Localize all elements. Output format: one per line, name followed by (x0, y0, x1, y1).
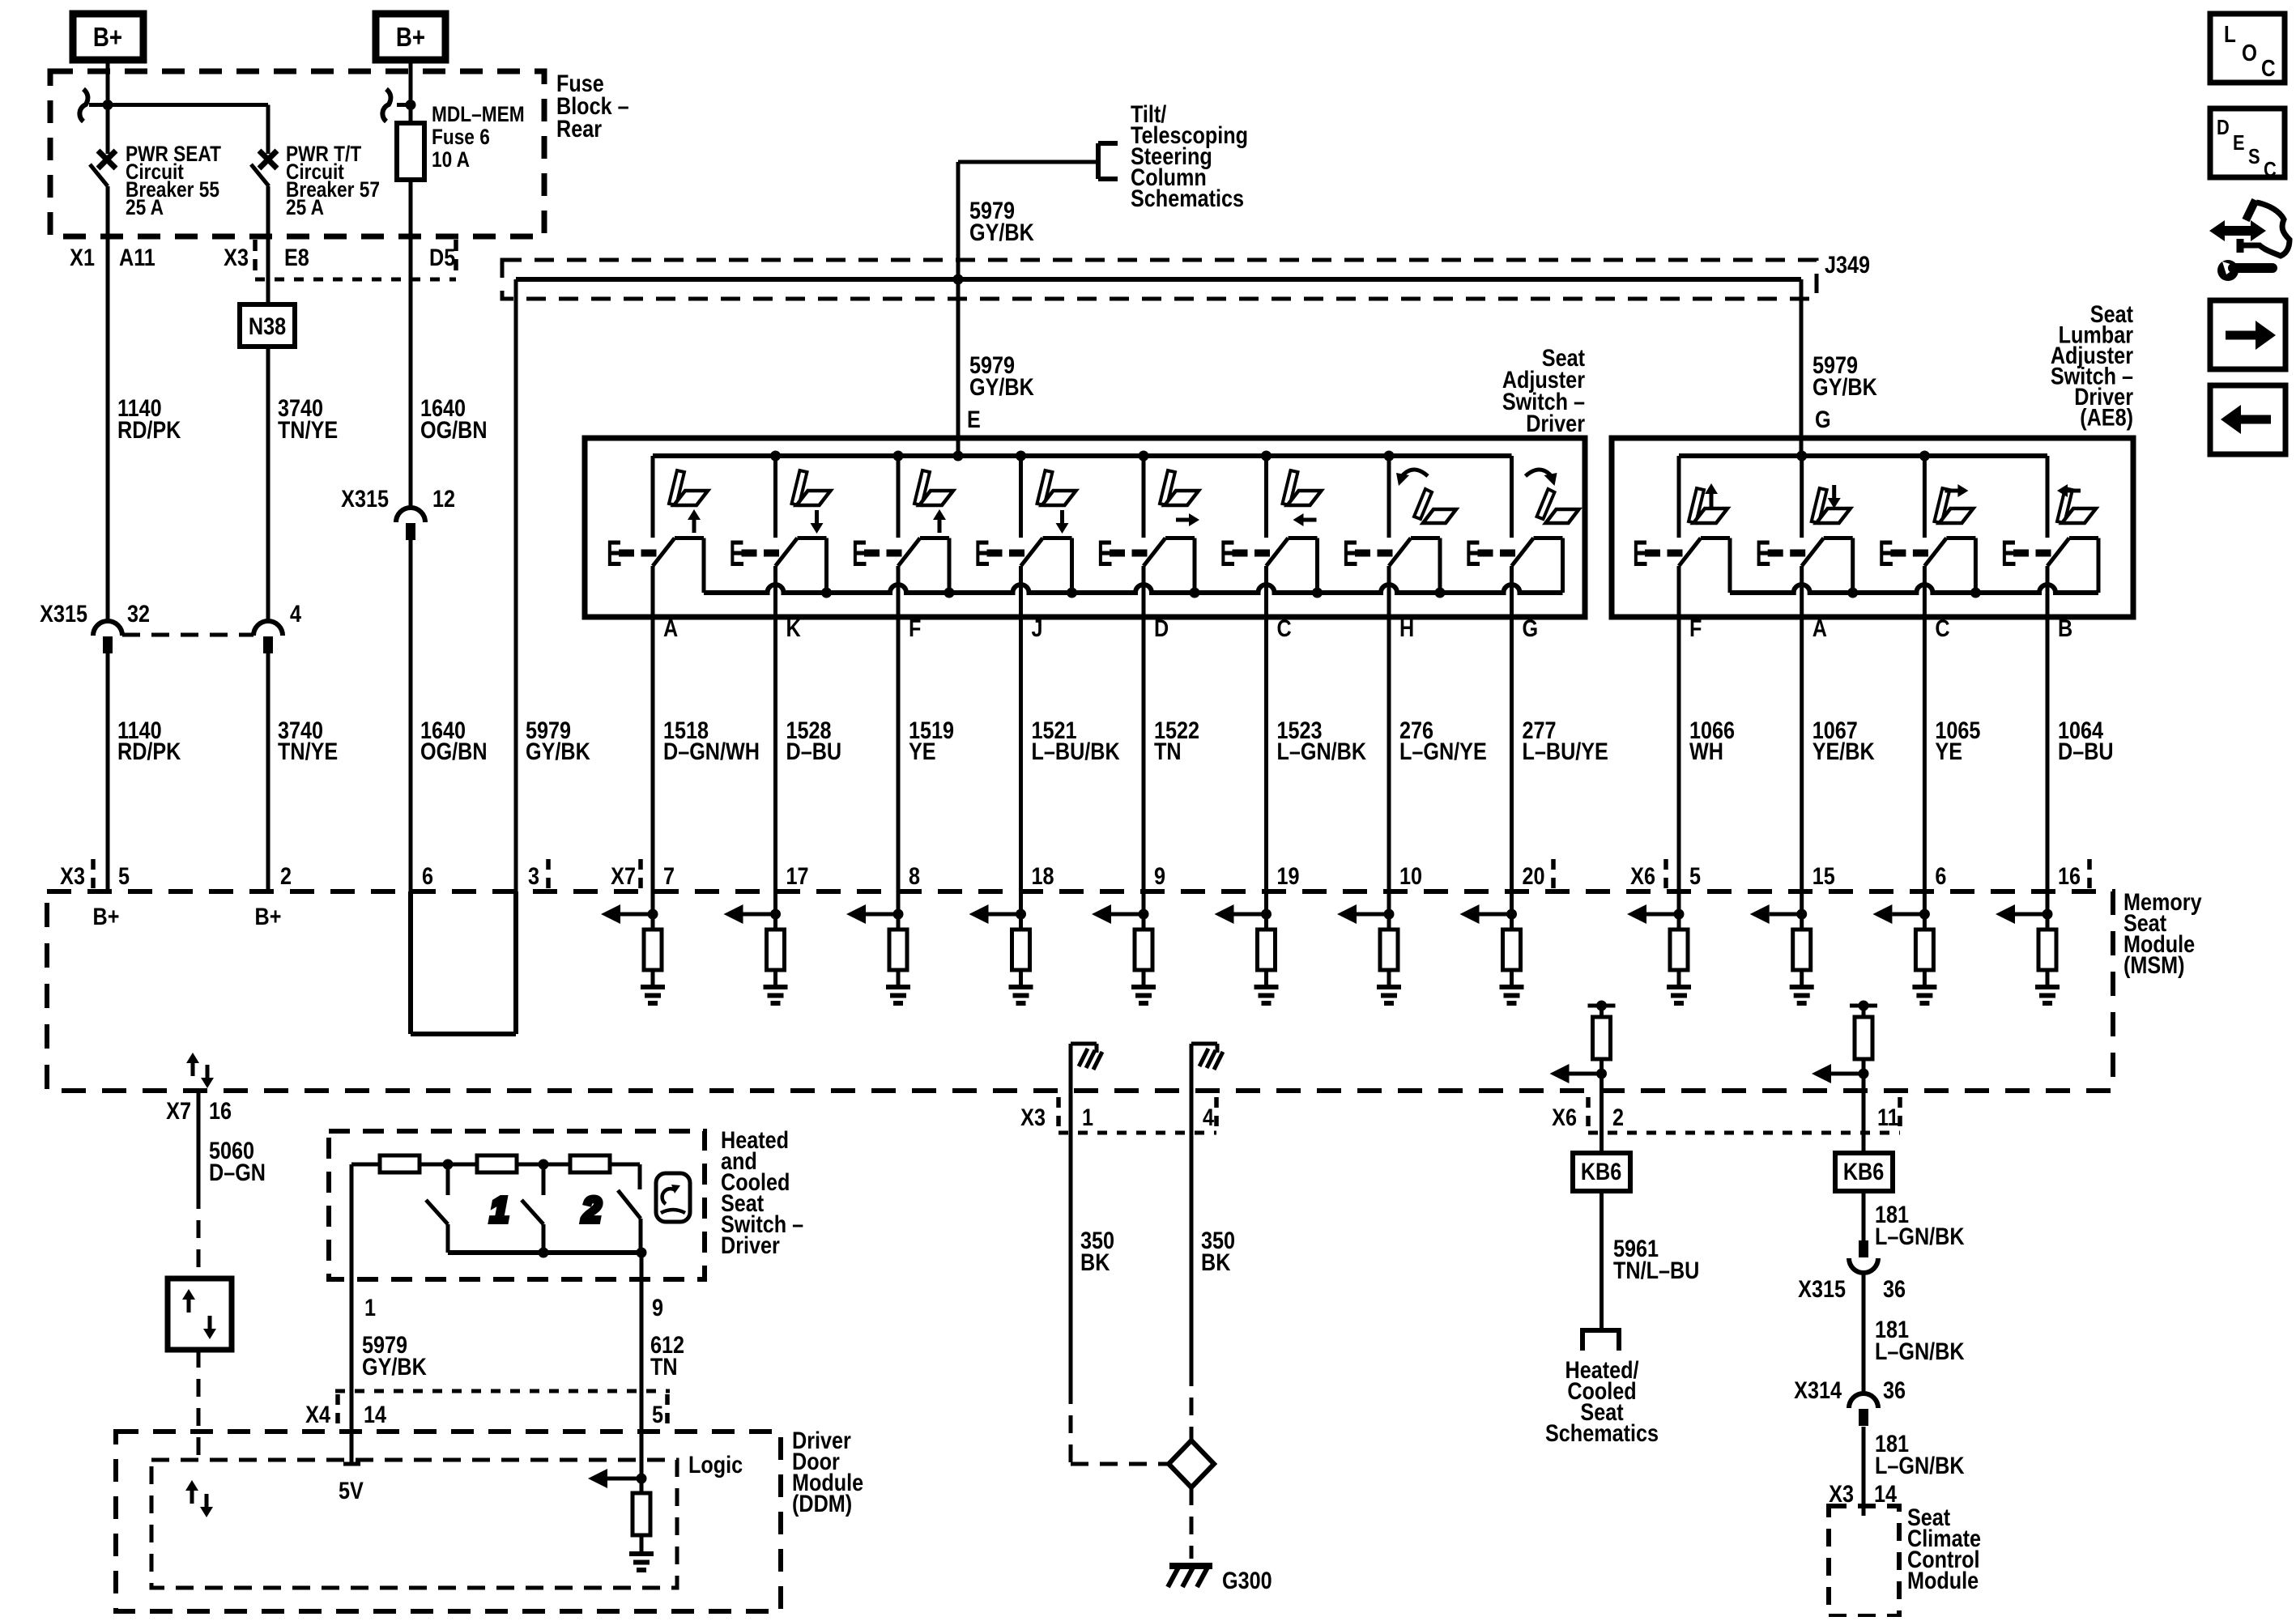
svg-text:J349: J349 (1825, 251, 1870, 279)
svg-text:BK: BK (1080, 1249, 1110, 1276)
svg-text:YE: YE (1935, 738, 1962, 765)
svg-text:D–GN: D–GN (209, 1159, 266, 1186)
svg-text:4: 4 (290, 600, 302, 628)
svg-text:10: 10 (1399, 862, 1422, 890)
svg-text:G: G (1815, 406, 1831, 433)
svg-text:2: 2 (581, 1190, 601, 1230)
svg-text:3: 3 (528, 862, 539, 890)
svg-text:10 A: 10 A (432, 147, 470, 172)
svg-text:X315: X315 (1798, 1275, 1846, 1303)
svg-text:KB6: KB6 (1581, 1158, 1621, 1185)
svg-text:X3: X3 (1020, 1104, 1046, 1131)
svg-text:RD/PK: RD/PK (117, 738, 181, 765)
svg-text:K: K (786, 615, 801, 642)
svg-text:WH: WH (1689, 738, 1723, 765)
svg-text:11: 11 (1877, 1104, 1899, 1131)
svg-text:X7: X7 (611, 862, 636, 890)
svg-text:L: L (2224, 21, 2236, 47)
svg-text:9: 9 (652, 1294, 663, 1321)
svg-text:Rear: Rear (556, 115, 602, 143)
svg-text:B+: B+ (93, 903, 120, 930)
svg-text:Logic: Logic (688, 1451, 743, 1478)
svg-text:F: F (1689, 615, 1702, 642)
svg-text:RD/PK: RD/PK (117, 416, 181, 444)
svg-text:X6: X6 (1630, 862, 1655, 890)
svg-text:X315: X315 (40, 600, 87, 628)
svg-text:2: 2 (1612, 1104, 1624, 1131)
svg-text:25 A: 25 A (286, 195, 324, 219)
svg-text:L–BU/YE: L–BU/YE (1523, 738, 1608, 765)
svg-text:X3: X3 (60, 862, 85, 890)
svg-text:J: J (1032, 615, 1043, 642)
svg-text:L–GN/BK: L–GN/BK (1875, 1223, 1965, 1250)
svg-text:8: 8 (909, 862, 920, 890)
svg-text:36: 36 (1883, 1376, 1906, 1404)
svg-text:B+: B+ (93, 23, 122, 53)
svg-text:TN/YE: TN/YE (278, 416, 338, 444)
svg-text:D5: D5 (429, 244, 455, 271)
svg-text:L–GN/BK: L–GN/BK (1277, 738, 1367, 765)
svg-text:D–BU: D–BU (786, 738, 842, 765)
svg-text:1: 1 (364, 1294, 376, 1321)
svg-text:B+: B+ (396, 23, 425, 53)
svg-text:X1: X1 (70, 244, 95, 271)
svg-text:D–GN/WH: D–GN/WH (663, 738, 760, 765)
svg-text:Driver: Driver (721, 1232, 780, 1259)
svg-text:OG/BN: OG/BN (420, 738, 488, 765)
svg-text:Module: Module (1907, 1567, 1979, 1594)
svg-text:A11: A11 (119, 244, 155, 271)
svg-text:MDL–MEM: MDL–MEM (432, 102, 525, 126)
svg-text:KB6: KB6 (1843, 1158, 1884, 1185)
svg-text:17: 17 (786, 862, 809, 890)
svg-text:A: A (1813, 615, 1827, 642)
svg-text:2: 2 (280, 862, 292, 890)
svg-text:19: 19 (1277, 862, 1300, 890)
svg-text:B+: B+ (255, 903, 282, 930)
svg-text:X7: X7 (166, 1097, 191, 1125)
svg-text:TN/YE: TN/YE (278, 738, 338, 765)
svg-text:YE: YE (909, 738, 936, 765)
svg-text:5: 5 (1689, 862, 1701, 890)
svg-text:GY/BK: GY/BK (1813, 373, 1877, 401)
svg-text:F: F (909, 615, 921, 642)
svg-text:X3: X3 (1829, 1480, 1854, 1508)
svg-text:15: 15 (1813, 862, 1835, 890)
svg-text:BK: BK (1201, 1249, 1230, 1276)
svg-text:4: 4 (1203, 1104, 1215, 1131)
svg-text:32: 32 (127, 600, 150, 628)
svg-text:L–GN/BK: L–GN/BK (1875, 1338, 1965, 1365)
svg-text:OG/BN: OG/BN (420, 416, 488, 444)
svg-text:E: E (967, 406, 981, 433)
svg-text:Fuse 6: Fuse 6 (432, 125, 490, 149)
svg-text:1: 1 (490, 1190, 509, 1230)
svg-text:L–BU/BK: L–BU/BK (1032, 738, 1120, 765)
svg-text:12: 12 (432, 485, 455, 513)
svg-text:Driver: Driver (1526, 410, 1585, 437)
svg-text:G: G (1523, 615, 1539, 642)
svg-text:GY/BK: GY/BK (362, 1353, 427, 1381)
svg-text:GY/BK: GY/BK (969, 219, 1034, 246)
svg-text:X3: X3 (224, 244, 249, 271)
svg-text:C: C (1935, 615, 1949, 642)
svg-text:7: 7 (663, 862, 675, 890)
svg-text:D: D (2217, 116, 2230, 139)
svg-text:A: A (663, 615, 678, 642)
svg-text:16: 16 (209, 1097, 232, 1125)
svg-text:C: C (1277, 615, 1292, 642)
svg-text:(MSM): (MSM) (2123, 951, 2185, 979)
svg-text:14: 14 (364, 1401, 387, 1428)
svg-text:9: 9 (1154, 862, 1165, 890)
svg-text:16: 16 (2058, 862, 2081, 890)
svg-text:36: 36 (1883, 1275, 1906, 1303)
svg-text:TN/L–BU: TN/L–BU (1613, 1257, 1699, 1284)
svg-text:X315: X315 (341, 485, 389, 513)
svg-text:D–BU: D–BU (2058, 738, 2114, 765)
svg-text:(DDM): (DDM) (792, 1490, 852, 1517)
svg-text:14: 14 (1874, 1480, 1898, 1508)
svg-text:S: S (2248, 145, 2260, 168)
svg-text:5V: 5V (339, 1477, 364, 1504)
svg-text:1: 1 (1082, 1104, 1093, 1131)
svg-text:C: C (2261, 55, 2276, 81)
svg-text:TN: TN (650, 1353, 678, 1381)
svg-text:L–GN/YE: L–GN/YE (1399, 738, 1487, 765)
svg-text:25 A: 25 A (126, 195, 164, 219)
svg-text:GY/BK: GY/BK (969, 373, 1034, 401)
svg-text:O: O (2242, 40, 2257, 66)
svg-text:5: 5 (118, 862, 130, 890)
svg-text:D: D (1154, 615, 1169, 642)
svg-text:E: E (2233, 131, 2245, 155)
svg-text:X6: X6 (1552, 1104, 1577, 1131)
svg-text:C: C (2264, 158, 2277, 181)
svg-text:G300: G300 (1222, 1567, 1272, 1594)
svg-text:X314: X314 (1794, 1376, 1842, 1404)
svg-text:20: 20 (1523, 862, 1545, 890)
svg-text:18: 18 (1032, 862, 1054, 890)
svg-text:N38: N38 (249, 313, 286, 340)
svg-text:L–GN/BK: L–GN/BK (1875, 1452, 1965, 1479)
svg-text:B: B (2058, 615, 2072, 642)
svg-text:E8: E8 (284, 244, 309, 271)
svg-text:6: 6 (422, 862, 433, 890)
svg-text:Schematics: Schematics (1545, 1419, 1659, 1447)
svg-text:YE/BK: YE/BK (1813, 738, 1875, 765)
svg-text:Schematics: Schematics (1131, 185, 1244, 212)
svg-text:5: 5 (652, 1401, 663, 1428)
svg-text:H: H (1399, 615, 1414, 642)
svg-text:GY/BK: GY/BK (526, 738, 590, 765)
svg-text:X4: X4 (305, 1401, 330, 1428)
svg-text:TN: TN (1154, 738, 1182, 765)
svg-text:(AE8): (AE8) (2080, 403, 2133, 431)
svg-text:6: 6 (1935, 862, 1946, 890)
